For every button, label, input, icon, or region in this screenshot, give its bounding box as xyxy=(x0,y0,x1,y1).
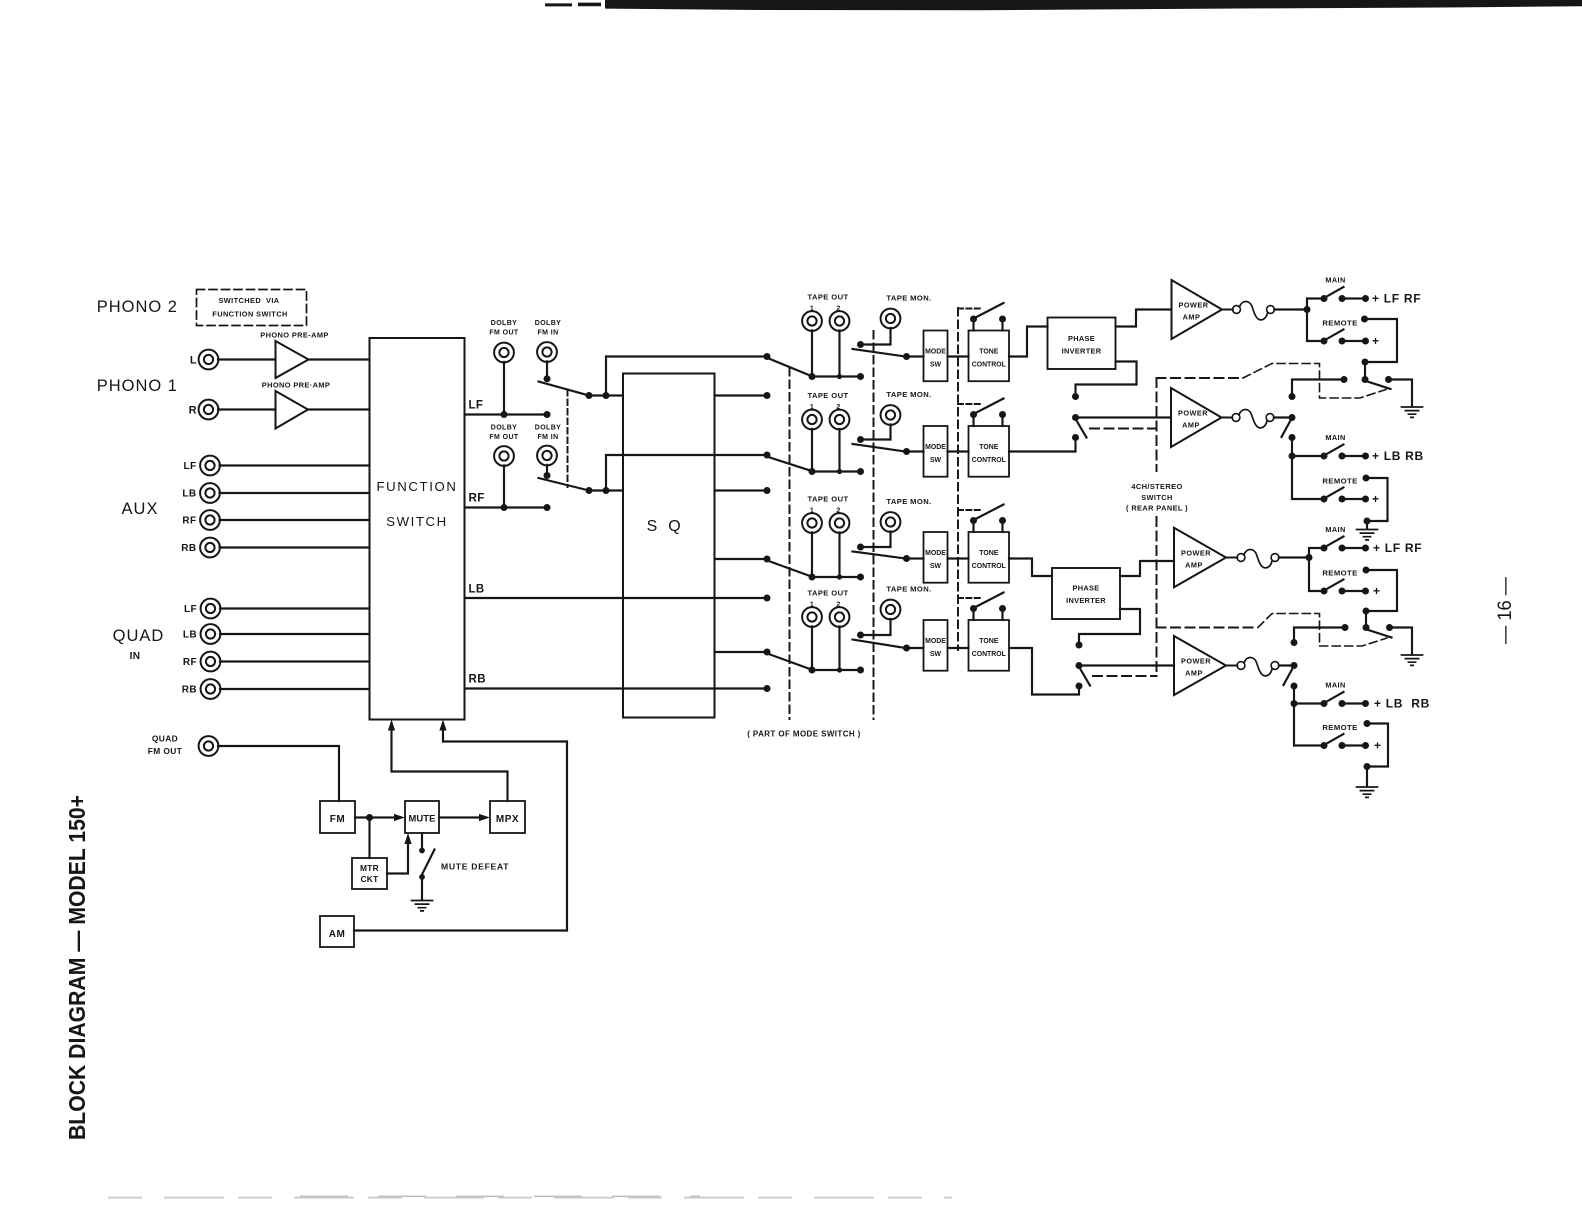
jack TAPE MON ch4 xyxy=(881,600,901,620)
svg-text:TAPE OUT: TAPE OUT xyxy=(807,495,848,504)
jack AUX LF xyxy=(200,456,220,476)
svg-text:TAPE MON.: TAPE MON. xyxy=(886,294,931,303)
wire F1 to junction xyxy=(1274,308,1307,310)
svg-text:SW: SW xyxy=(930,651,942,658)
wire PI2 out to power amp 3 xyxy=(1120,561,1174,576)
switch PA4 output blade xyxy=(1284,669,1293,686)
ground ch4 xyxy=(1357,787,1378,797)
ground ch3 xyxy=(1402,655,1423,665)
power amp A2 xyxy=(1171,388,1222,447)
wire tape jacks to rail ch4 xyxy=(811,626,813,670)
gang dash stub tone ch3 xyxy=(958,509,980,511)
gang dash vertical 4ch/stereo lower xyxy=(1156,517,1158,676)
power amp A4 xyxy=(1174,636,1226,695)
wire SQ out ch2 xyxy=(715,489,768,491)
wire MUTE to MPX xyxy=(439,816,483,818)
wire to mode switch ch1 xyxy=(907,355,924,357)
wire junction riser ch4 xyxy=(1294,704,1324,746)
node RB direct contact xyxy=(764,685,771,692)
tone control box ch1 xyxy=(969,331,1010,382)
svg-text:FM IN: FM IN xyxy=(537,330,558,337)
tone control box ch3 xyxy=(969,532,1010,583)
svg-text:SWITCH: SWITCH xyxy=(386,514,448,529)
wire FM tap to MTR CKT xyxy=(368,818,370,859)
switch tone defeat blade ch3 xyxy=(977,505,1004,519)
jack QUAD IN RF xyxy=(201,652,221,672)
ground ch2 xyxy=(1357,530,1378,540)
svg-text:SWITCH: SWITCH xyxy=(1141,493,1173,502)
wire PA4 selector to speaker rows xyxy=(1293,686,1295,704)
svg-text:CONTROL: CONTROL xyxy=(972,651,1006,658)
wire RB out to mode contact xyxy=(465,687,768,689)
svg-text:FUNCTION: FUNCTION xyxy=(377,479,458,494)
jack TAPE OUT 1 ch1 xyxy=(802,311,822,331)
switch monitor blade ch4 xyxy=(853,640,906,649)
MTR CKT box xyxy=(352,858,387,889)
wire FM to MUTE xyxy=(355,816,398,818)
svg-text:LF: LF xyxy=(183,461,196,472)
svg-text:TAPE OUT: TAPE OUT xyxy=(807,293,848,302)
svg-text:DOLBY: DOLBY xyxy=(491,320,518,327)
fuse F3 xyxy=(1226,557,1237,559)
jack TAPE OUT 1 ch2 xyxy=(802,410,822,430)
wire tape rail ch4 xyxy=(812,669,861,671)
scan artifact: bottom faint line xyxy=(108,1197,952,1199)
switch REMOTE ch4 xyxy=(1321,742,1328,749)
wire MAIN to terminal ch2 xyxy=(1342,455,1366,457)
node FM output xyxy=(366,814,373,821)
svg-text:LB: LB xyxy=(182,489,196,500)
svg-text:DOLBY: DOLBY xyxy=(535,320,562,327)
ground mute defeat xyxy=(412,901,433,911)
switch monitor blade ch1 xyxy=(853,349,906,357)
svg-text:TAPE OUT: TAPE OUT xyxy=(807,391,848,400)
node output junction ch1 xyxy=(1304,306,1311,313)
MUTE box xyxy=(405,801,439,833)
svg-text:TAPE MON.: TAPE MON. xyxy=(886,585,931,594)
svg-text:FM: FM xyxy=(330,814,345,825)
gang dash vertical 4ch/stereo upper xyxy=(1156,378,1158,471)
wire MPX to function switch xyxy=(392,726,508,801)
gang dash stub tone ch1 xyxy=(958,308,980,310)
wire SQ out ch1 xyxy=(715,394,768,396)
svg-text:FM OUT: FM OUT xyxy=(489,330,519,337)
wire pre-amp to function switch RF xyxy=(308,408,370,410)
svg-text:+: + xyxy=(1372,492,1380,506)
jack TAPE MON ch2 xyxy=(881,405,901,425)
wire to mode switch ch2 xyxy=(907,450,924,452)
wire F2 to selector xyxy=(1274,416,1292,418)
svg-text:AMP: AMP xyxy=(1183,312,1201,321)
wire REMOTE to terminal ch1 xyxy=(1342,340,1366,342)
wire PI1 out2 to stereo contact xyxy=(1076,362,1137,397)
wire return to ground ch4 xyxy=(1366,767,1368,787)
svg-text:POWER: POWER xyxy=(1181,657,1211,666)
tone defeat terminals ch4 xyxy=(972,609,974,621)
wire R to pre-amp xyxy=(218,408,276,410)
wire PI1 out to power amp 1 xyxy=(1116,310,1172,327)
svg-text:POWER: POWER xyxy=(1178,409,1208,418)
svg-text:Q: Q xyxy=(668,518,680,535)
svg-text:RF: RF xyxy=(182,516,196,527)
svg-text:AUX: AUX xyxy=(122,500,159,518)
svg-text:QUAD: QUAD xyxy=(152,734,178,744)
gang dash branch ch4 xyxy=(1093,675,1157,677)
svg-text:( PART OF MODE SWITCH ): ( PART OF MODE SWITCH ) xyxy=(747,730,861,739)
node monitor output ch4 xyxy=(903,645,910,652)
svg-text:DOLBY: DOLBY xyxy=(535,425,562,432)
node stereo return contact ch1 xyxy=(1341,376,1348,383)
ground ch1 xyxy=(1402,407,1423,417)
wire tone ch1 to phase inverter 1 xyxy=(1009,327,1048,357)
tone control box ch2 xyxy=(969,426,1010,477)
wire AUX RF to function switch xyxy=(220,519,370,521)
selector contacts PA2 output xyxy=(1289,393,1296,400)
svg-text:REMOTE: REMOTE xyxy=(1322,477,1357,486)
svg-text:FM OUT: FM OUT xyxy=(148,746,183,756)
wire REMOTE to terminal ch2 xyxy=(1342,498,1366,500)
svg-text:CONTROL: CONTROL xyxy=(972,563,1006,570)
svg-text:AMP: AMP xyxy=(1185,668,1203,677)
node ground contact ch3 xyxy=(1386,624,1393,631)
node output junction ch2 xyxy=(1289,453,1296,460)
gang dashes tape mon switches xyxy=(873,331,875,719)
wire mode to tone ch3 xyxy=(948,557,969,559)
svg-text:MODE: MODE xyxy=(925,349,946,356)
svg-text:MAIN: MAIN xyxy=(1325,681,1345,690)
wire to ground ch1 xyxy=(1389,380,1413,407)
wire tape jacks to rail ch3 xyxy=(811,532,813,577)
wire speaker return loop ch1 xyxy=(1361,316,1368,323)
wire AUX RB to function switch xyxy=(220,546,370,548)
wire QUAD RB to function switch xyxy=(220,688,370,690)
jack AUX LB xyxy=(200,483,220,503)
svg-text:TONE: TONE xyxy=(979,638,998,645)
svg-text:TONE: TONE xyxy=(979,444,998,451)
wire PA2 selector to speaker rows xyxy=(1291,438,1293,457)
node LF line end xyxy=(544,411,551,418)
wire MTR CKT to MUTE xyxy=(387,841,408,874)
svg-text:DOLBY: DOLBY xyxy=(491,425,518,432)
wire to ground ch3 xyxy=(1390,628,1413,655)
node LF direct contact xyxy=(764,353,771,360)
svg-text:+ LB RB: + LB RB xyxy=(1372,449,1424,463)
fuse F2 xyxy=(1221,417,1232,419)
switch dolby 2 blade xyxy=(539,478,590,491)
wire REMOTE to terminal ch3 xyxy=(1342,590,1366,592)
wire REMOTE to terminal ch4 xyxy=(1342,744,1366,746)
svg-text:MAIN: MAIN xyxy=(1325,276,1345,285)
svg-text:TONE: TONE xyxy=(979,550,998,557)
switch source blade ch3 xyxy=(770,562,810,577)
wire F3 to junction xyxy=(1279,556,1309,558)
node 4ch contact PA2 xyxy=(1072,434,1079,441)
svg-text:SWITCHED VIA: SWITCHED VIA xyxy=(218,296,279,305)
svg-text:FUNCTION SWITCH: FUNCTION SWITCH xyxy=(212,310,287,319)
wire speaker return loop ch4 xyxy=(1364,720,1371,727)
svg-text:+ LF RF: + LF RF xyxy=(1373,541,1422,555)
power amp A1 xyxy=(1172,280,1223,339)
svg-text:+: + xyxy=(1374,739,1382,753)
wire common to power amp 2 xyxy=(1076,416,1172,418)
jack AUX RF xyxy=(200,510,220,530)
wire defeat to ground xyxy=(421,877,423,900)
svg-text:MODE: MODE xyxy=(925,550,946,557)
node stereo contact PA2 xyxy=(1072,393,1079,400)
wire stereo return ch3 to PA4 selector xyxy=(1294,628,1345,640)
node PA4 input common xyxy=(1076,662,1083,669)
svg-text:SW: SW xyxy=(930,457,942,464)
wire dolby fm out 1 tap xyxy=(503,362,505,415)
svg-text:+ LF RF: + LF RF xyxy=(1372,292,1421,306)
svg-text:TAPE MON.: TAPE MON. xyxy=(886,390,931,399)
switch REMOTE ch1 xyxy=(1321,338,1328,345)
wire tape mon stub ch3 xyxy=(861,531,891,547)
switch MAIN ch4 xyxy=(1321,700,1328,707)
svg-text:AMP: AMP xyxy=(1185,560,1203,569)
wire return to selector ch1 xyxy=(1364,362,1366,380)
gang dashes tone switches xyxy=(957,308,959,650)
svg-text:S: S xyxy=(647,518,658,535)
wire to mode switch ch4 xyxy=(907,647,924,649)
wire RF out xyxy=(465,506,548,508)
wire tape mon stub ch4 xyxy=(861,619,891,635)
svg-text:AM: AM xyxy=(329,929,346,940)
wire SQ out ch3 xyxy=(715,558,768,560)
svg-text:LF: LF xyxy=(184,604,197,615)
node LB direct contact xyxy=(764,595,771,602)
wire tone ch2 to 4ch contact xyxy=(1009,438,1076,452)
svg-text:AMP: AMP xyxy=(1182,420,1200,429)
svg-text:MPX: MPX xyxy=(496,814,519,825)
svg-text:INVERTER: INVERTER xyxy=(1062,347,1102,356)
mode switch box ch4 xyxy=(924,620,948,671)
wire tape rail ch1 xyxy=(812,375,861,377)
svg-text:PHASE: PHASE xyxy=(1073,584,1100,593)
gang dash branch ch1 xyxy=(1157,377,1244,379)
note box SWITCHED VIA FUNCTION SWITCH xyxy=(197,290,307,326)
switch MUTE DEFEAT xyxy=(421,833,423,848)
svg-text:RB: RB xyxy=(182,685,197,696)
svg-text:REMOTE: REMOTE xyxy=(1322,569,1357,578)
svg-text:MTR: MTR xyxy=(360,863,379,873)
wire LF bypass riser xyxy=(606,357,767,396)
tone defeat terminals ch2 xyxy=(972,415,974,427)
svg-text:TAPE MON.: TAPE MON. xyxy=(886,497,931,506)
fuse F1 xyxy=(1222,309,1233,311)
svg-text:MODE: MODE xyxy=(925,638,946,645)
node monitor output ch1 xyxy=(903,353,910,360)
svg-text:SW: SW xyxy=(930,362,942,369)
gang dash branch ch3 xyxy=(1157,627,1259,629)
node dolby 2 contact xyxy=(586,487,593,494)
wire stereo return ch1 to PA2 selector xyxy=(1292,380,1344,394)
wire L to pre-amp xyxy=(218,358,276,360)
svg-text:REMOTE: REMOTE xyxy=(1322,319,1357,328)
wire tape jacks to rail ch1 xyxy=(811,330,813,376)
switch monitor blade ch3 xyxy=(853,552,906,559)
svg-text:RF: RF xyxy=(183,657,197,668)
wire mode to tone ch4 xyxy=(948,647,969,649)
jack TAPE MON ch1 xyxy=(881,309,901,329)
svg-text:CKT: CKT xyxy=(360,874,379,884)
wire tape mon stub ch2 xyxy=(861,424,891,439)
wire MAIN to terminal ch4 xyxy=(1342,702,1366,704)
phase inverter 1 box xyxy=(1048,318,1116,370)
switch ground selector blade ch1 xyxy=(1368,382,1391,390)
wire QUAD FM OUT to FM xyxy=(218,746,339,801)
jack QUAD IN LB xyxy=(201,624,221,644)
svg-text:RB: RB xyxy=(181,543,196,554)
svg-text:TAPE OUT: TAPE OUT xyxy=(807,589,848,598)
svg-text:LB: LB xyxy=(183,630,197,641)
svg-text:BLOCK DIAGRAM — MODEL 150+: BLOCK DIAGRAM — MODEL 150+ xyxy=(64,795,90,1140)
AM box xyxy=(320,916,354,947)
jack QUAD IN RB xyxy=(201,679,221,699)
node dolby 1 contact xyxy=(586,392,593,399)
wire pre-amp to function switch LF xyxy=(309,358,370,360)
switch tone defeat blade ch1 xyxy=(977,303,1004,317)
wire return to selector ch3 xyxy=(1365,611,1367,628)
svg-text:FM OUT: FM OUT xyxy=(489,434,519,441)
svg-text:MAIN: MAIN xyxy=(1325,433,1345,442)
gang dashes tape out switches xyxy=(789,368,791,719)
switch tone defeat blade ch4 xyxy=(977,593,1004,607)
SQ decoder box xyxy=(623,374,715,718)
mode switch box ch2 xyxy=(924,426,948,477)
wire QUAD RF to function switch xyxy=(220,660,370,662)
fuse F4 xyxy=(1226,665,1237,667)
MPX box xyxy=(490,801,525,833)
jack AUX RB xyxy=(200,538,220,558)
wire QUAD LF to function switch xyxy=(220,607,370,609)
svg-text:L: L xyxy=(190,355,197,367)
wire RF bypass riser xyxy=(606,455,767,491)
svg-text:LB: LB xyxy=(469,584,485,596)
svg-text:R: R xyxy=(189,405,197,417)
wire AUX LB to function switch xyxy=(220,492,370,494)
svg-text:+ LB RB: + LB RB xyxy=(1374,697,1430,711)
node output junction ch3 xyxy=(1306,554,1313,561)
wire AM to function switch xyxy=(354,726,567,931)
wire tone ch4 to 4ch contact xyxy=(1009,648,1079,695)
svg-text:IN: IN xyxy=(130,651,141,662)
power amp A3 xyxy=(1174,528,1226,588)
switch dolby 1 blade xyxy=(539,382,590,396)
wire tone ch3 to phase inverter 2 xyxy=(1009,559,1052,577)
tone control box ch4 xyxy=(969,620,1010,671)
wire QUAD LB to function switch xyxy=(220,633,370,635)
wire dolby fm out 2 tap xyxy=(503,465,505,507)
node stereo return contact ch3 xyxy=(1342,624,1349,631)
svg-text:PHONO 2: PHONO 2 xyxy=(97,298,178,316)
node RF line end xyxy=(544,504,551,511)
svg-text:+: + xyxy=(1372,334,1380,348)
svg-text:PHONO PRE-AMP: PHONO PRE-AMP xyxy=(260,331,328,340)
svg-text:+: + xyxy=(1373,584,1381,598)
gang dash stub tone ch4 xyxy=(958,597,980,599)
svg-text:MUTE: MUTE xyxy=(409,813,436,824)
svg-text:POWER: POWER xyxy=(1181,549,1211,558)
FM box xyxy=(320,801,355,833)
svg-text:SW: SW xyxy=(930,563,942,570)
svg-text:4CH/STEREO: 4CH/STEREO xyxy=(1131,482,1182,491)
switch PA4 input blade xyxy=(1080,669,1090,686)
switch MAIN ch2 xyxy=(1321,453,1328,460)
svg-text:RF: RF xyxy=(469,493,485,505)
phase inverter 2 box xyxy=(1052,568,1120,619)
svg-text:MAIN: MAIN xyxy=(1325,525,1345,534)
wire MAIN to terminal ch3 xyxy=(1342,547,1366,549)
wire junction riser ch1 xyxy=(1307,299,1324,342)
wire dolby fm in 2 stub xyxy=(546,465,548,476)
wire speaker return loop ch3 xyxy=(1363,567,1370,574)
switch PA2 output blade xyxy=(1282,421,1291,438)
wire LB out to mode contact xyxy=(465,597,768,599)
wire junction riser ch2 xyxy=(1292,456,1324,499)
gang dashes dolby switches xyxy=(567,390,569,487)
switch PA2 input blade xyxy=(1077,421,1087,438)
tone defeat terminals ch1 xyxy=(972,319,974,331)
wire tape jacks to rail ch2 xyxy=(811,429,813,472)
svg-text:TONE: TONE xyxy=(979,349,998,356)
node ground contact ch1 xyxy=(1385,376,1392,383)
wire MAIN to terminal ch1 xyxy=(1342,297,1366,299)
svg-text:LF: LF xyxy=(469,400,484,412)
wire speaker return loop ch2 xyxy=(1363,475,1370,482)
wire to mode switch ch3 xyxy=(907,557,924,559)
jack QUAD IN LF xyxy=(201,599,221,619)
svg-text:FM IN: FM IN xyxy=(537,434,558,441)
wire common to power amp 4 xyxy=(1079,664,1174,666)
wire LF out xyxy=(465,413,548,415)
tone defeat terminals ch3 xyxy=(972,521,974,533)
node 4ch contact PA4 xyxy=(1076,683,1083,690)
node stereo contact PA4 xyxy=(1076,642,1083,649)
switch tone defeat blade ch2 xyxy=(977,399,1004,413)
jack TAPE OUT 1 ch4 xyxy=(802,607,822,627)
gang dash stub tone ch2 xyxy=(958,403,980,405)
svg-text:CONTROL: CONTROL xyxy=(972,362,1006,369)
switch monitor blade ch2 xyxy=(853,444,906,452)
switch REMOTE ch2 xyxy=(1321,496,1328,503)
jack TAPE OUT 2 ch4 xyxy=(830,607,850,627)
wire return to ground ch2 xyxy=(1366,521,1368,529)
svg-text:REMOTE: REMOTE xyxy=(1322,723,1357,732)
svg-text:INVERTER: INVERTER xyxy=(1066,596,1106,605)
switch MAIN ch3 xyxy=(1321,545,1328,552)
function switch box xyxy=(370,338,465,720)
node output junction ch4 xyxy=(1291,700,1298,707)
wire mode to tone ch2 xyxy=(948,450,969,452)
svg-text:— 16 —: — 16 — xyxy=(1495,577,1516,644)
mode switch box ch3 xyxy=(924,532,948,583)
switch REMOTE ch3 xyxy=(1321,588,1328,595)
jack R (phono) xyxy=(199,400,219,420)
wire junction riser ch3 xyxy=(1309,548,1324,591)
wire dolby fm in 1 stub xyxy=(546,361,548,378)
wire tape mon stub ch1 xyxy=(861,328,891,345)
jack TAPE OUT 2 ch1 xyxy=(830,311,850,331)
gang dash branch ch2 xyxy=(1090,428,1157,430)
wire SQ out ch4 xyxy=(715,651,768,653)
wire tape rail ch3 xyxy=(812,576,861,578)
node monitor output ch2 xyxy=(903,448,910,455)
switch ground selector blade ch3 xyxy=(1369,630,1392,638)
wire tape rail ch2 xyxy=(812,470,861,472)
jack TAPE OUT 2 ch2 xyxy=(830,410,850,430)
svg-text:RB: RB xyxy=(469,674,486,686)
